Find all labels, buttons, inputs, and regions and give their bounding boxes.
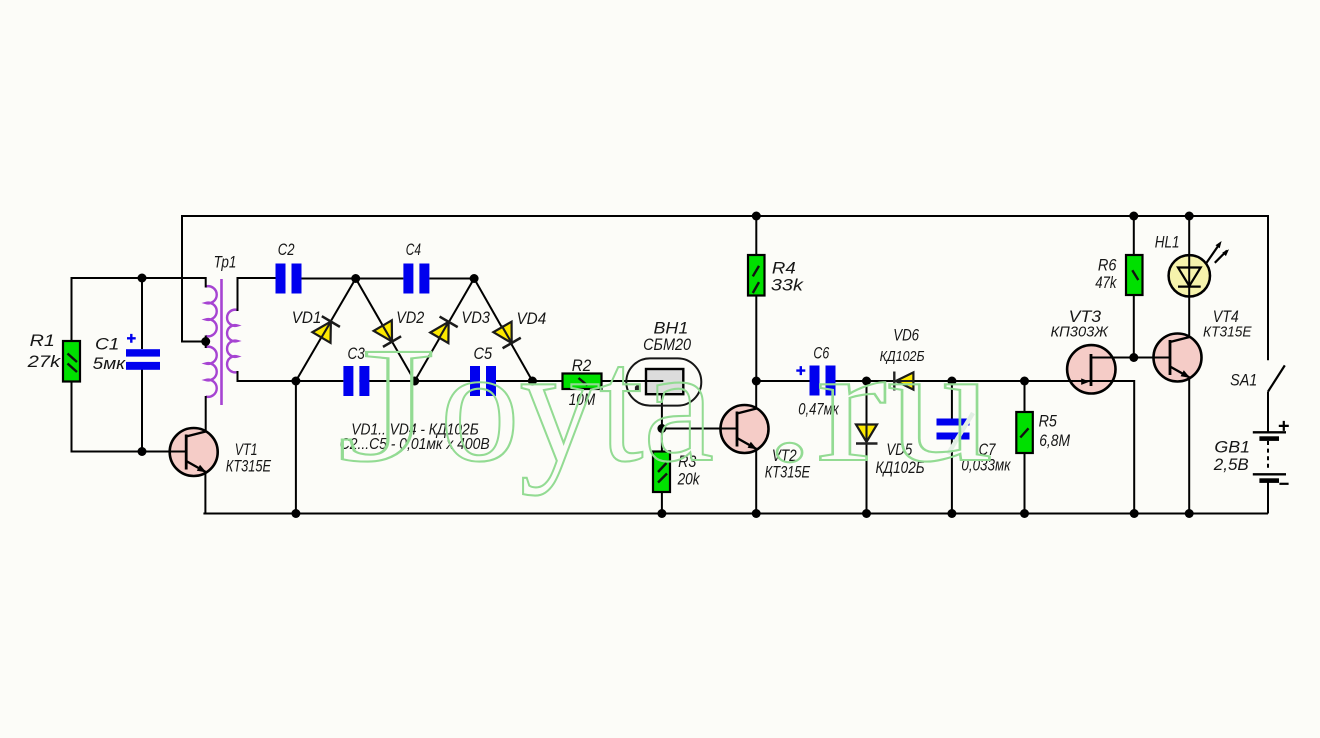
wire R2 to tube BH1 anode [602,380,664,382]
node D multiplier bottom 2 [410,377,419,386]
wire mid node to C6 [756,380,809,382]
capacitor C7 0,033мк [937,413,974,454]
battery GB1 cell1 long plate [1253,431,1286,433]
svg-text:J: J [337,313,436,496]
wire C7 top lead [951,381,953,419]
junction R4 top rail [752,212,761,221]
junction VD5 mid rail [862,377,871,386]
led HL1 [1169,216,1229,337]
geiger tube BH1 body [646,369,683,394]
diode VD4 [493,320,521,348]
junction transformer tap [201,337,210,346]
junction HL1 top rail [1185,212,1194,221]
junction C7 mid rail [947,377,956,386]
svg-text:R1: R1 [30,331,55,350]
junction R5 mid rail [1020,377,1029,386]
wire VT3 source through circle to ground drop [1089,381,1134,514]
resistor R1 27k [63,341,80,382]
wire secondary top to C2 [238,277,276,279]
wire VT2 collector lead [755,381,757,409]
svg-text:SA1: SA1 [1230,370,1257,389]
svg-text:C4: C4 [406,240,421,259]
svg-text:6,8М: 6,8М [1039,431,1070,450]
node E multiplier bottom 3 [528,377,537,386]
junction node C ground [291,509,300,518]
wire diagonal VD2 branch [356,279,415,382]
transistor VT4 KT315E [1152,334,1202,382]
diode VD6 KD102B [894,372,913,391]
svg-text:VD1: VD1 [292,308,322,327]
wire R4 top lead [755,216,757,255]
junction C7 ground [947,509,956,518]
battery GB1 minus mark [1279,483,1288,485]
wire VT4 emitter to ground [1188,378,1190,514]
node C multiplier bottom 1 [291,377,300,386]
svg-text:HL1: HL1 [1155,232,1180,251]
svg-text:КТ315Е: КТ315Е [226,457,272,476]
wire top-left row R1/C1 to primary top [72,277,206,279]
diode VD5 KD102B [856,424,878,444]
svg-text:R6: R6 [1098,255,1117,274]
transistor VT1 KT315E [168,428,218,476]
wire C1 bottom lead [141,370,143,452]
junction VT3 source ground [1130,509,1139,518]
capacitor C5 [470,366,496,396]
watermark joyta [337,313,993,496]
wire VD5 branch down [866,381,868,514]
battery GB1 cell2 long plate [1253,473,1286,475]
svg-text:.ru: .ru [763,313,993,496]
geiger tube BH1 SBM20 envelope [626,358,701,405]
battery GB1 plus mark [1279,421,1289,431]
junction R6 VT3 drain [1129,353,1138,362]
geiger tube BH1 marker [635,384,640,390]
junction R6 top rail [1129,212,1138,221]
wire VT2 emitter lead [755,450,757,514]
svg-text:C2: C2 [278,240,295,259]
diode VD2 [373,319,401,347]
wire battery minus to ground rail [1267,483,1269,514]
battery GB1 dashed link [1267,441,1269,470]
wire left drop from top rail to transformer tap [182,215,206,342]
transformer Tp1 primary winding [206,286,217,397]
wire top supply rail [182,215,1268,217]
svg-text:КТ315Е: КТ315Е [1203,324,1253,341]
wire node A to C4 [356,278,404,280]
junction VD5 ground [862,509,871,518]
svg-text:5мк: 5мк [93,354,126,373]
battery GB1 cell1 short plate [1259,436,1279,441]
wire SA1 bottom terminal to battery [1267,392,1269,433]
wire diagonal VD1 branch [296,279,356,382]
svg-text:27k: 27k [27,352,62,371]
capacitor C3 [343,366,369,396]
junction VT2 emitter ground [752,509,761,518]
svg-text:R5: R5 [1039,412,1058,431]
wire C1 top lead [141,278,143,349]
wire R1 bottom lead [71,382,73,452]
diode VD1 [312,316,340,344]
wire R1 top lead [71,277,73,341]
resistor R6 47k [1126,255,1143,295]
node B multiplier top 2 [470,274,479,283]
transformer Tp1 secondary winding [227,310,237,373]
wire VT3 drain to VT4 base with R6 tap [1091,357,1170,359]
svg-text:33k: 33k [771,275,805,294]
wire primary leads [205,277,207,432]
wire VT1 emitter to ground rail [204,472,206,514]
junction R4 VT2 collector C6 [752,377,761,386]
wire VD6 to VT3 gate with R5/C7 taps [913,380,1081,382]
junction C1 bottom [138,447,147,456]
svg-text:47k: 47k [1095,273,1117,292]
geiger tube BH1 electrode [646,380,663,382]
wire R4 bottom lead to mid node [755,296,757,382]
transformer Tp1 core [220,279,223,405]
resistor R2 10M [563,374,602,390]
switch SA1 lever [1268,365,1285,391]
capacitor C1 5мк polarized [126,334,160,370]
wire R5 top lead [1024,381,1026,412]
capacitor C6 0,47мк polarized [796,366,835,396]
resistor R5 6,8M [1016,412,1033,453]
svg-text:Тр1: Тр1 [214,253,237,272]
transistor VT2 KT315E [719,405,769,453]
wire R6 bottom lead [1133,295,1135,358]
wire C5 to R2 [486,380,563,382]
wire R3 bottom lead [661,492,663,514]
junction R5 ground [1020,509,1029,518]
resistor R4 33k [748,255,765,296]
wire C6 to VD6 [836,380,914,382]
wire tube cathode lead down [661,394,663,428]
wire diagonal VD3 branch [415,279,474,382]
wire multiplier bottom row secondary to C3 [238,380,344,382]
wire VT2 base lead [662,428,738,430]
wire VT1 base row [71,451,187,453]
junction VT4 emitter ground [1185,509,1194,518]
diode VD3 [429,317,457,345]
wire R5 bottom lead [1024,453,1026,514]
wire C3 to C5 [359,380,470,382]
wire right edge top rail to SA1 [1267,215,1269,360]
wire R6 top lead [1133,216,1135,255]
wire C2 to node A [302,278,356,280]
battery GB1 cell2 short plate [1259,478,1279,483]
capacitor C4 [403,264,429,294]
transistor VT3 KP303Zh JFET [1067,345,1117,393]
svg-text:C1: C1 [95,335,119,354]
svg-text:КП303Ж: КП303Ж [1051,323,1110,340]
node A multiplier top 1 [351,274,360,283]
junction C1 top [138,274,147,283]
wire diagonal VD4 branch [474,279,532,382]
wire bottom ground rail [203,513,1268,515]
wire C7 bottom lead [951,440,953,514]
wire node C drop to ground [295,381,297,514]
capacitor C2 [276,264,302,294]
wire C4 to node B [429,278,474,280]
junction tube cathode R3 VT2 base [657,424,666,433]
wire tube node to R3 [661,429,663,452]
svg-text:2,5В: 2,5В [1213,455,1249,474]
junction R3 ground [657,509,666,518]
resistor R3 20k [653,452,670,493]
svg-text:oyta: oyta [440,313,714,496]
wire secondary leads [238,277,297,381]
